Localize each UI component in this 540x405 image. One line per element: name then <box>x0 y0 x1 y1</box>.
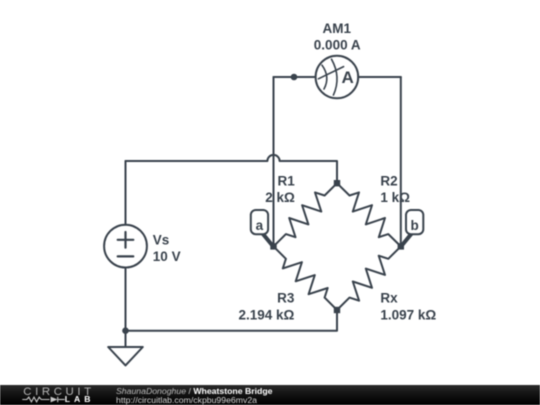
svg-text:Vs: Vs <box>153 232 170 247</box>
svg-text:0.000 A: 0.000 A <box>314 37 361 52</box>
svg-text:R1: R1 <box>278 173 296 188</box>
svg-text:A: A <box>342 68 354 87</box>
svg-text:AM1: AM1 <box>323 21 352 36</box>
svg-text:1.097 kΩ: 1.097 kΩ <box>380 307 436 322</box>
svg-text:2.194 kΩ: 2.194 kΩ <box>239 307 295 322</box>
svg-text:10 V: 10 V <box>153 249 181 264</box>
svg-text:b: b <box>410 218 418 233</box>
svg-text:Rx: Rx <box>380 291 398 306</box>
svg-text:2 kΩ: 2 kΩ <box>265 190 295 205</box>
svg-text:1 kΩ: 1 kΩ <box>380 190 410 205</box>
svg-text:R2: R2 <box>380 173 397 188</box>
svg-text:R3: R3 <box>277 291 295 306</box>
svg-text:LAB: LAB <box>65 394 95 404</box>
svg-text:a: a <box>256 218 264 233</box>
